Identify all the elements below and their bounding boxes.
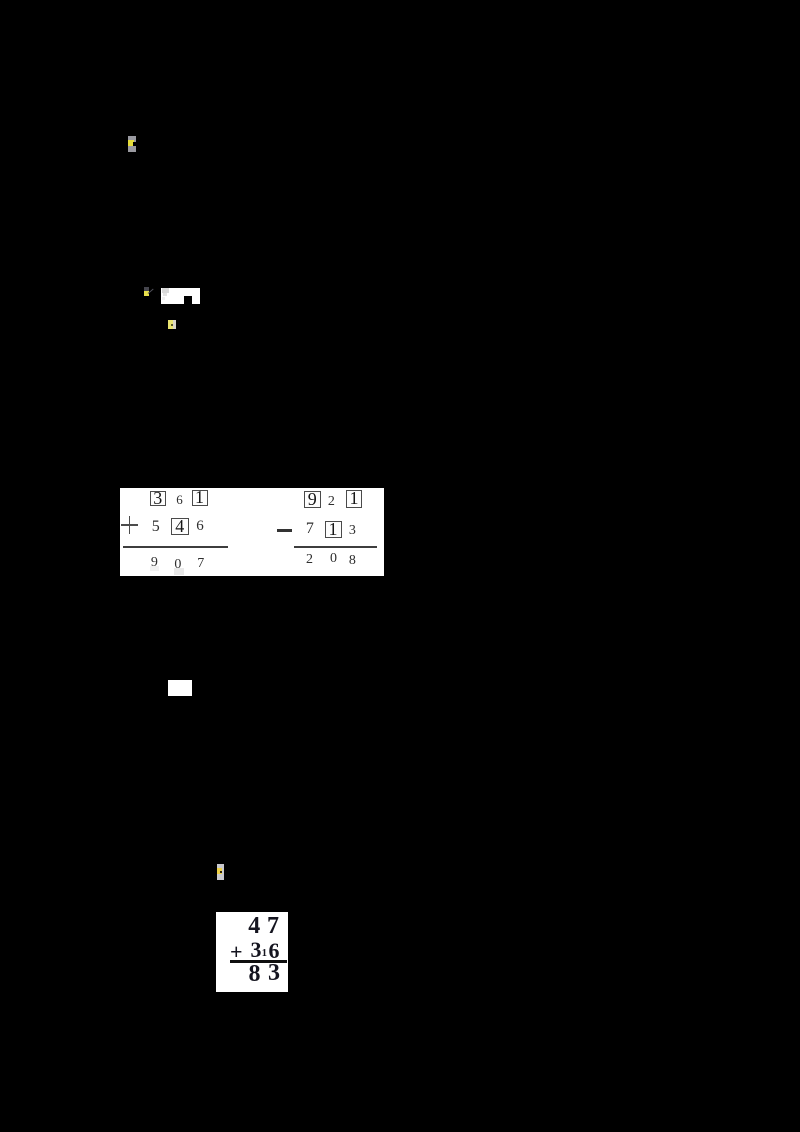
small blank white rect: [168, 680, 192, 696]
box around carry 3: [150, 491, 167, 507]
box around carry 1: [192, 490, 208, 506]
box around 1: [325, 521, 342, 539]
digit 5: [152, 519, 160, 535]
sum line left: [123, 546, 228, 548]
main worked-problems panel: [120, 488, 384, 576]
plus sign: [121, 524, 138, 526]
box around carry 1: [346, 490, 362, 508]
digit 7: [306, 521, 314, 537]
digits 4 7: [248, 914, 260, 938]
digit 6 top row: [176, 493, 183, 506]
faint scribble in tooltip: [162, 288, 169, 293]
faint eraser smudges: [174, 568, 184, 575]
plus sign bottom: [230, 941, 243, 963]
sum line right: [294, 546, 378, 548]
result 8 3: [249, 962, 261, 986]
icon cursor-1 (grey caret with yellow band, top left): [128, 136, 136, 152]
digit 2 top row: [328, 495, 335, 509]
white notched tooltip rect: [161, 288, 200, 304]
digit 6 second row: [196, 519, 204, 534]
icon note-3 (yellow/grey square with dot): [168, 320, 176, 329]
box around 9: [304, 491, 321, 508]
digit 3: [349, 524, 356, 538]
icon marker-4 (grey bar with yellow square and dot): [217, 864, 225, 880]
bottom worked addition 47 + 36 = 83: [216, 912, 288, 992]
sum line bottom: [230, 960, 288, 963]
box around 4: [171, 518, 189, 535]
minus sign: [277, 529, 292, 532]
icon pencil-2 (grey/yellow mini icon with slash): [144, 287, 149, 292]
result 9 0 7: [151, 556, 158, 570]
result 2 0 8: [306, 553, 313, 567]
digits 3 6 with carry 1: [251, 939, 262, 961]
